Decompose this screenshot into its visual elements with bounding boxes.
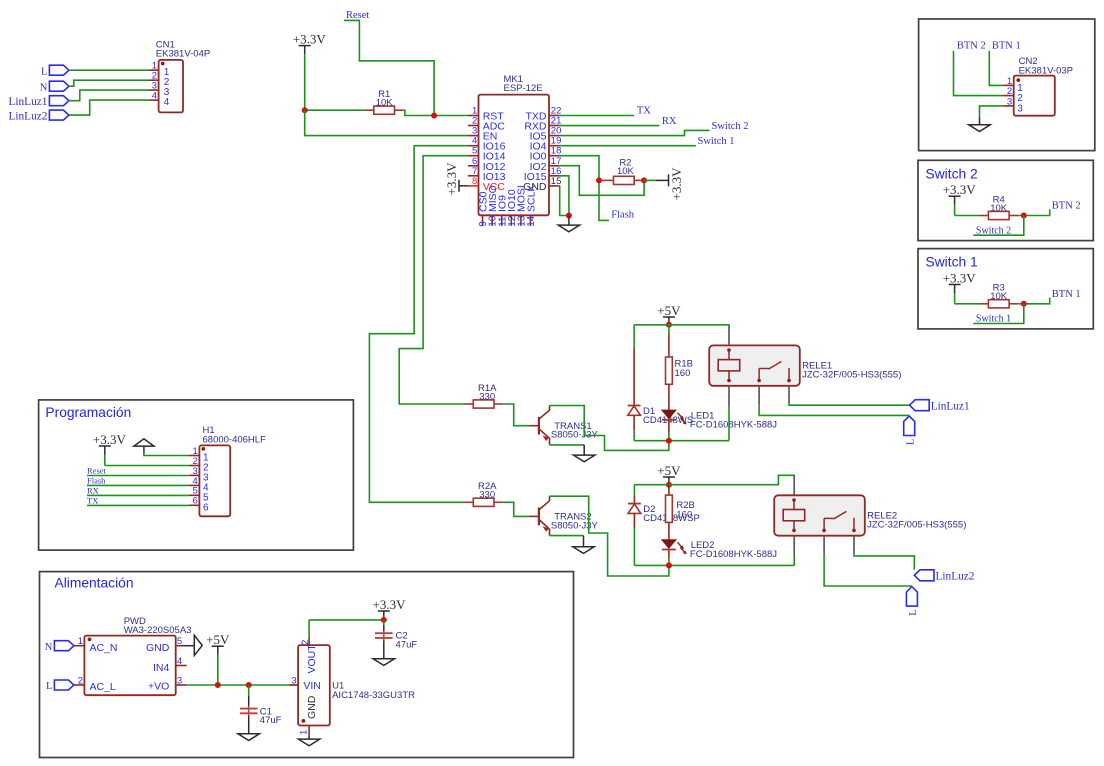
pin 9 MK1 CS0 [482,215,484,226]
pin 6 MK1 IO12 [468,165,479,167]
wire LED1 to bottom rail [668,433,670,441]
pin 8 MK1 VCC [468,185,479,187]
wire BTN 2 to CN2.2 [954,51,1004,96]
section box Alimentacion [40,572,574,758]
svg-text:Switch 1: Switch 1 [976,314,1011,325]
svg-text:WA3-220S05A3: WA3-220S05A3 [124,625,192,636]
wire gnd to H1.1 [144,453,189,456]
section box CN2 [919,19,1095,151]
wire to Switch 1 label [973,304,1024,324]
svg-text:6: 6 [193,496,198,507]
wire IO14 to R1A [399,156,468,404]
svg-text:3: 3 [1017,103,1023,114]
junction Switch 2 node [1021,213,1027,219]
pin 12 MK1 IO10 [510,215,512,226]
section box Switch 2 [918,160,1093,240]
net flag L (rotated) [904,416,915,436]
svg-text:8: 8 [472,176,477,187]
wire Flash to H1.4 [87,484,189,486]
svg-text:+5V: +5V [657,463,681,478]
svg-text:S8050-J3Y: S8050-J3Y [551,520,599,531]
wire TRANS2 collector to node [550,496,669,576]
svg-text:JZC-32F/005-HS3(555): JZC-32F/005-HS3(555) [867,520,966,531]
net flag L [54,680,74,690]
svg-text:+3.3V: +3.3V [444,162,459,196]
wire coil- to bottom rail [728,406,730,441]
power +3.3V [93,432,127,466]
wire VOUT to +3.3V [309,619,384,621]
wire rail to D2 [633,485,635,496]
wire RELE1 NO to LinLuz1 [789,403,910,405]
transistor TRANS1 [529,406,550,445]
pin 1 H1 [189,455,200,457]
svg-text:47uF: 47uF [396,639,418,650]
wire +5V rail 1 [634,325,729,327]
svg-text:+3.3V: +3.3V [943,182,977,197]
pin 17 MK1 IO2 [549,165,560,167]
power +3.3V (right of R2, rotated) [644,167,684,201]
power +3.3V [943,182,977,216]
resistor R1B [666,334,673,410]
section box Programacion [39,400,354,550]
ground [573,536,594,554]
pin-1 marker CN1 [161,62,165,66]
junction R2 left [596,177,602,183]
wire RELE2 com to L flag [824,555,912,586]
pin 10 MK1 MISO [491,215,493,226]
svg-text:4: 4 [164,97,170,108]
wire Reset to RST [344,20,434,115]
pin 3 H1 [189,474,200,476]
wire R3 to BTN 1 [1018,298,1049,304]
pin 4 H1 [189,484,200,486]
junction bottom rail 1 [666,438,672,444]
ground [238,734,259,741]
wire R2A to TRANS2 base [503,502,528,516]
pin 3 CN1 [149,89,159,91]
wire GND pin down [560,186,569,216]
svg-text:4: 4 [177,656,182,667]
junction +3.3V node [302,107,308,113]
svg-text:5: 5 [177,636,182,647]
pin 16 MK1 IO15 [549,175,560,177]
relay RELE2 [774,495,865,535]
wire RELE2 com pin [823,536,825,556]
pin 1 PWD AC_N [74,645,85,647]
wire VOUT up [308,620,310,638]
pin 13 MK1 MOSI [520,215,522,226]
svg-text:+3.3V: +3.3V [943,270,977,285]
ground (up) [134,439,154,446]
junction bottom rail 2 [666,562,672,568]
pin 4 PWD IN4 [176,665,187,667]
pin 5 MK1 IO14 [468,155,479,157]
ground [969,118,990,132]
svg-text:330: 330 [479,490,495,501]
pin 2 H1 [189,465,200,467]
pin 19 MK1 IO4 [549,145,560,147]
svg-text:JZC-32F/005-HS3(555): JZC-32F/005-HS3(555) [802,370,901,381]
wire TX to H1.6 [87,504,189,506]
svg-text:1: 1 [78,636,83,647]
pin 18 MK1 IO0 [549,155,560,157]
pin 3 MK1 EN [468,135,479,137]
junction +5V rail 1 [666,322,672,328]
relay RELE2 pin leads [793,475,795,495]
svg-text:N: N [40,82,48,93]
pin 22 MK1 TXD [549,115,560,117]
pin 2 PWD AC_L [74,684,85,686]
wire bottom rail 1 [634,440,729,442]
svg-text:L: L [905,439,916,445]
ground [298,736,319,746]
LED LED2 [662,540,687,554]
svg-text:+3.3V: +3.3V [669,167,684,201]
junction +5V rail 2 [666,482,672,488]
wire +VO to VIN [187,684,294,686]
svg-text:68000-406HLF: 68000-406HLF [203,435,267,446]
junction C1 node [246,682,252,688]
wire L to CN1.1 [69,69,149,71]
wire TRANS2 emitter to gnd [550,535,584,537]
wire N to CN1.2 [69,80,149,86]
wire LinLuz2 to CN1.4 [69,100,149,115]
wire +3.3V to H1.2 [105,465,189,467]
wire BTN 1 to CN2.1 [989,51,1003,86]
wire RELE1 coil- pin [728,386,730,406]
net flag LinLuz2 [914,570,934,581]
svg-text:15: 15 [551,176,562,187]
junction RST node [431,113,437,119]
connector H1 [199,445,230,516]
svg-text:+3.3V: +3.3V [293,31,327,46]
wire +3.3V to R1 [305,109,365,111]
svg-text:2: 2 [300,640,311,645]
wire PWD GND pin [182,645,194,647]
net flag N [49,81,69,91]
ground (right) [194,635,202,655]
resistor R2A [464,498,503,506]
wire RXD to RX [560,125,660,127]
svg-text:EK381V-03P: EK381V-03P [1019,66,1073,77]
svg-text:AC_N: AC_N [90,642,118,654]
pin 3 CN2 [1003,105,1014,107]
wire IO5 to Switch 2 [560,130,710,135]
ground [373,659,394,666]
power +3.3V [943,270,977,304]
relay RELE1 pin leads [728,327,730,346]
svg-text:160: 160 [675,368,691,379]
pin 4 MK1 IO16 [468,145,479,147]
svg-text:Reset: Reset [87,466,107,476]
svg-text:Flash: Flash [611,210,635,221]
svg-text:Switch 1: Switch 1 [698,136,735,147]
svg-text:+3.3V: +3.3V [93,432,127,447]
wire D2 anode lead [633,513,635,528]
svg-text:LinLuz2: LinLuz2 [936,571,975,583]
svg-text:Flash: Flash [87,476,106,486]
pin 6 H1 [189,504,200,506]
IC U1 body [298,645,330,725]
net flag N [54,641,74,651]
wire RELE2 coil- pin [793,536,795,556]
wire RELE2 NO pin [853,536,855,554]
wire +3.3V to R4 [955,215,980,217]
pin 3 PWD +VO [176,684,187,686]
svg-text:47uF: 47uF [260,715,282,726]
svg-text:4: 4 [152,91,157,102]
wire rail to D1 [633,325,635,348]
pin-1 marker U1 [302,719,306,723]
svg-text:160: 160 [676,509,692,520]
svg-text:LinLuz1: LinLuz1 [8,96,47,108]
junction Switch 1 node [1021,301,1027,307]
LED LED1 [662,410,687,424]
wire Reset to H1.3 [87,475,189,477]
capacitor C1 [240,685,258,735]
junction +5V node [215,682,221,688]
svg-text:Programación: Programación [45,405,131,420]
pin 5 H1 [189,494,200,496]
svg-text:3: 3 [1007,96,1012,107]
wire CN2.3 to gnd [980,106,1004,118]
svg-text:10K: 10K [376,98,394,109]
wire R1 to RST [404,110,468,115]
svg-text:10K: 10K [990,291,1008,302]
net flag L [49,65,69,75]
net flag LinLuz2 [49,110,69,120]
ground [558,216,579,232]
svg-text:EK381V-04P: EK381V-04P [156,49,210,60]
power +5V [206,632,230,685]
svg-text:Switch 2: Switch 2 [926,166,978,181]
svg-text:+5V: +5V [206,632,230,647]
svg-text:AIC1748-33GU3TR: AIC1748-33GU3TR [332,690,415,701]
resistor R3 [979,300,1018,308]
svg-text:3: 3 [177,675,182,686]
svg-text:10K: 10K [990,203,1008,214]
pin 7 MK1 IO13 [468,175,479,177]
svg-text:+3.3V: +3.3V [373,597,407,612]
wire LED1 cathode lead [668,420,670,432]
svg-text:Reset: Reset [346,10,369,21]
pin 5 PWD GND [176,645,182,647]
wire IO15 down [560,176,569,216]
wire RX to H1.5 [87,494,189,496]
wire gnd stem [143,446,145,452]
pin 1 MK1 RST [468,115,479,117]
diode D1 [628,406,641,416]
pin 11 MK1 IO9 [501,215,503,226]
pin-1 marker PWD [88,638,92,642]
wire TXD to TX [560,115,635,117]
wire IO2 to R2 [560,166,644,196]
svg-text:RX: RX [87,486,99,496]
svg-text:330: 330 [479,391,495,402]
svg-text:Switch 2: Switch 2 [712,121,749,132]
wire D1 anode lead [633,415,635,430]
net flag L (rotated) [906,587,917,607]
svg-text:LinLuz1: LinLuz1 [931,400,970,412]
wire IO0 to Flash [560,156,609,221]
svg-text:TX: TX [87,496,98,506]
wire R1A to TRANS1 base [503,404,528,426]
wire LinLuz1 to CN1.3 [69,90,149,101]
svg-text:2: 2 [78,675,83,686]
svg-text:N: N [45,642,53,653]
junction GND node [566,213,572,219]
svg-text:GND: GND [306,695,318,719]
svg-text:ESP-12E: ESP-12E [504,83,543,94]
svg-text:RX: RX [662,116,677,127]
connector CN1 [159,60,183,113]
resistor R1 [365,106,404,114]
pin 1 CN2 [1003,84,1014,86]
transistor TRANS2 [529,496,550,535]
svg-text:Switch 1: Switch 1 [926,255,978,270]
diode D2 [628,504,641,514]
wire to Switch 2 label [973,216,1024,236]
svg-text:TX: TX [637,106,651,117]
svg-text:FC-D1608HYK-588J: FC-D1608HYK-588J [690,549,777,560]
wire +5V to R1B [668,325,670,334]
svg-text:VOUT: VOUT [306,644,318,674]
capacitor C2 [375,620,393,659]
svg-text:AC_L: AC_L [90,681,116,693]
svg-text:GND: GND [146,642,170,654]
power module PWD [84,636,175,696]
wire RELE1 com pin [758,386,760,405]
pin 20 MK1 IO5 [549,135,560,137]
ground [574,445,595,462]
pin 14 MK1 SCLK [530,215,532,226]
wire +3.3V to R3 [955,303,980,305]
svg-text:L: L [46,681,52,692]
pin 3 U1 VIN [290,684,299,686]
svg-text:14: 14 [526,215,537,227]
section box Switch 1 [918,249,1093,329]
wire TRANS1 collector to node [550,406,669,451]
pin 21 MK1 RXD [549,125,560,127]
svg-text:IN4: IN4 [153,662,170,674]
power +5V [657,303,681,326]
power +3.3V (VCC pin, rotated) [444,162,468,196]
wire bottom rail 2 [634,564,794,566]
power +5V [657,463,681,486]
svg-text:3: 3 [291,675,296,686]
svg-text:BTN 1: BTN 1 [1052,289,1081,300]
svg-text:L: L [908,609,919,615]
wire LED2 cathode lead [668,550,670,558]
resistor R2 [599,176,644,184]
svg-text:10K: 10K [617,166,635,177]
net flag LinLuz1 [49,96,69,106]
svg-text:L: L [41,66,47,77]
resistor R4 [979,211,1018,219]
svg-text:Switch 2: Switch 2 [976,225,1011,236]
connector CN2 [1014,76,1055,116]
pin 2 MK1 ADC [468,125,479,127]
wire IO4 to Switch 1 [560,145,696,147]
diode D1 leads [633,348,635,406]
wire RELE1 NO pin [788,386,790,404]
pin 2 CN1 [149,79,159,81]
pin 1 U1 GND [308,726,310,736]
wire RELE1 com to L flag [759,405,909,415]
svg-text:SCLK: SCLK [525,185,537,212]
IC MK1 ESP-12E body [479,95,550,216]
wire D2 to bottom rail [633,528,635,565]
wire +3.3V to EN [305,110,468,135]
svg-text:VIN: VIN [303,680,321,692]
wire TRANS1 emitter to gnd [550,444,585,446]
svg-text:+VO: +VO [148,680,169,692]
pin-1 marker CN2 [1016,78,1020,82]
resistor R1A [464,400,503,408]
wire R4 to BTN 2 [1018,209,1049,215]
wire +5V rail 2 [634,475,794,484]
pin 2 CN2 [1003,95,1014,97]
wire coil- to bottom rail 2 [793,555,795,565]
pin 4 CN1 [149,99,159,101]
svg-text:1: 1 [298,730,309,735]
net flag LinLuz1 [910,400,930,411]
svg-text:BTN 2: BTN 2 [957,40,986,51]
relay RELE1 [709,345,800,385]
wire RELE2 NO to LinLuz2 [854,554,914,570]
pin 15 MK1 GND [549,185,560,187]
svg-text:Alimentación: Alimentación [55,576,134,591]
junction R2 right [641,177,647,183]
resistor R2B [666,485,673,540]
power +3.3V [373,597,407,620]
svg-text:+5V: +5V [657,303,681,318]
svg-text:BTN 1: BTN 1 [992,40,1021,51]
pin 1 CN1 [149,69,159,71]
diode D2 leads [633,496,635,504]
pin-1 marker H1 [201,447,205,451]
power +3.3V [293,31,327,110]
svg-text:BTN 2: BTN 2 [1052,201,1081,212]
wire D1 to bottom rail [633,430,635,441]
junction +3.3V node [381,617,387,623]
wire IO16 to R2A [369,146,468,503]
svg-text:LinLuz2: LinLuz2 [8,110,47,122]
svg-text:6: 6 [203,503,209,514]
wire LED2 to bottom rail [668,558,670,565]
svg-text:FC-D1608HYK-588J: FC-D1608HYK-588J [690,420,777,431]
pin 2 U1 VOUT [308,638,310,646]
